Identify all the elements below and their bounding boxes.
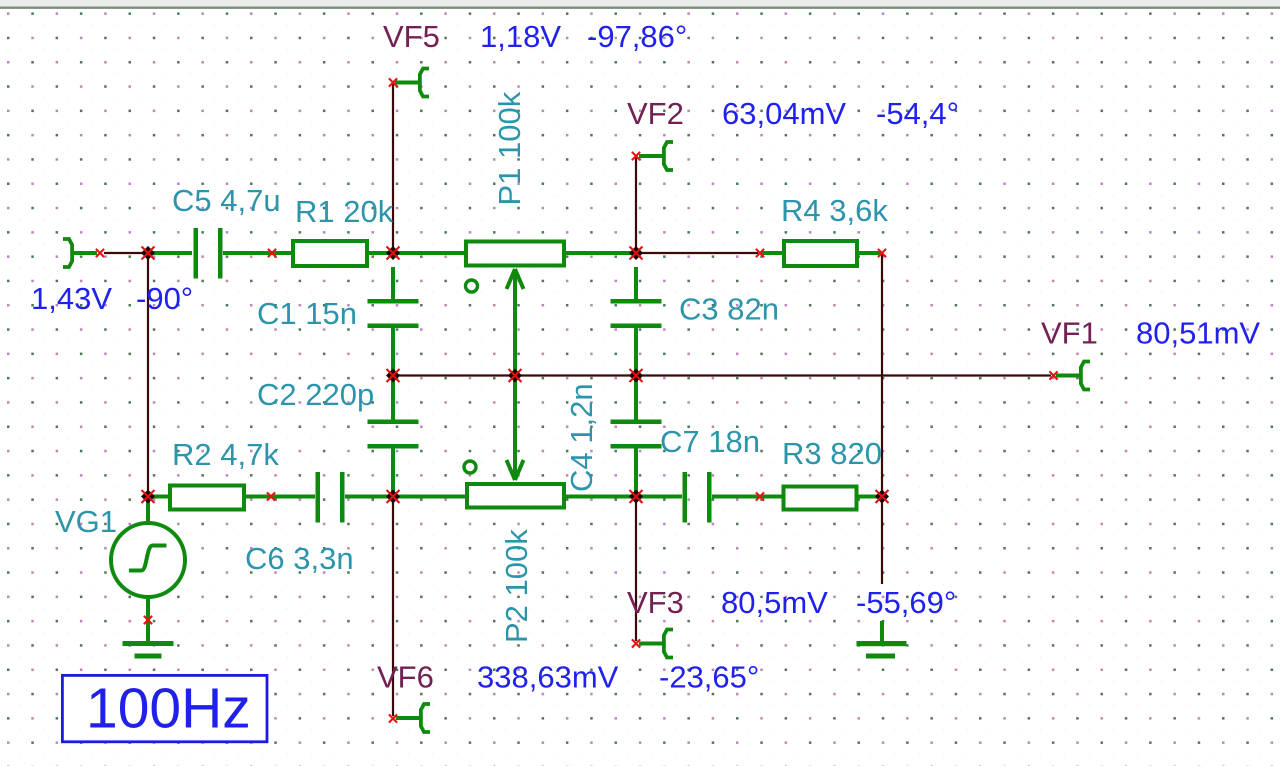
capacitor C4 [611, 420, 662, 449]
resistor R4 [784, 241, 857, 266]
pin VF6 [396, 704, 430, 732]
x R4 left [756, 249, 764, 257]
wire VG1 stubs [146, 497, 150, 641]
svg-text:-97,86°: -97,86° [587, 19, 687, 54]
svg-text:VF5: VF5 [383, 19, 440, 54]
pin VF1 [1056, 362, 1090, 390]
junction node A [141, 246, 155, 260]
capacitor C7 [683, 472, 712, 523]
wire VF5 down to node B [392, 84, 394, 252]
label VF6 row [377, 660, 434, 695]
svg-text:C4 1,2n: C4 1,2n [564, 383, 599, 492]
ground right [857, 641, 907, 659]
label VF2 row [627, 96, 684, 131]
label input value [31, 281, 193, 316]
wire R1 to P1 [369, 251, 465, 255]
potentiometer P2 circle [464, 461, 476, 473]
wire R4 right to corner [859, 251, 881, 255]
x VF3 [632, 639, 640, 647]
svg-text:C1 15n: C1 15n [257, 296, 357, 331]
potentiometer P2 [467, 484, 564, 508]
svg-text:1,18V: 1,18V [480, 19, 561, 54]
wire to R4 left [761, 251, 782, 255]
wire node C to R4 [638, 252, 758, 254]
x VG ground [144, 616, 152, 624]
svg-text:R2 4,7k: R2 4,7k [172, 437, 279, 472]
junction node F [875, 490, 889, 504]
svg-text:C5 4,7u: C5 4,7u [172, 183, 281, 218]
svg-text:VG1: VG1 [55, 504, 117, 539]
wire C2 leads [391, 377, 395, 495]
wire node E down to VF3 [635, 498, 637, 641]
resistor R1 [293, 241, 367, 266]
svg-text:63,04mV: 63,04mV [722, 96, 846, 131]
wire C6 to P2 [345, 495, 466, 499]
junction node B [386, 246, 400, 260]
svg-text:80,5mV: 80,5mV [721, 585, 828, 620]
frequency box [62, 675, 267, 741]
wire VG1 to R2 [150, 495, 169, 499]
capacitor C5 [194, 228, 223, 279]
wire C3 leads [634, 267, 638, 374]
svg-text:80,51mV: 80,51mV [1136, 316, 1260, 351]
resistor R2 [170, 486, 244, 510]
wiper arrow up into P1 [507, 269, 524, 289]
svg-text:-55,69°: -55,69° [856, 585, 956, 620]
wiper wire P1-P2 [513, 269, 517, 480]
wire P1 to node C [565, 251, 636, 255]
potentiometer P1 circle [466, 280, 478, 292]
wire VF2 down to node C [635, 157, 637, 252]
svg-text:C7 18n: C7 18n [660, 424, 760, 459]
svg-text:-23,65°: -23,65° [659, 660, 759, 695]
x VF6 [389, 714, 397, 722]
wire middle rail to VF1 [394, 374, 1051, 376]
svg-text:C6 3,3n: C6 3,3n [245, 541, 354, 576]
wire R3 to node F [857, 495, 881, 499]
wire C1 leads [391, 267, 395, 374]
svg-text:R3 820: R3 820 [782, 436, 882, 471]
pin VF3 [639, 630, 673, 658]
junction mid right [629, 369, 643, 383]
generator VG1 [111, 523, 185, 597]
svg-text:338,63mV: 338,63mV [477, 660, 619, 695]
svg-text:-54,4°: -54,4° [876, 96, 959, 131]
pin VF2 [639, 142, 673, 170]
x R4 corner [878, 249, 886, 257]
wire ground right stub [880, 621, 884, 641]
svg-text:C3 82n: C3 82n [679, 292, 779, 327]
wire input stub [150, 251, 192, 255]
wire input to node A [104, 252, 147, 254]
label VF3 row [627, 585, 684, 620]
svg-text:1,43V: 1,43V [31, 281, 112, 316]
svg-text:VF3: VF3 [627, 585, 684, 620]
label VF1 row [1041, 316, 1098, 351]
x VF2 [632, 152, 640, 160]
x C7 right [756, 492, 764, 500]
svg-text:VF1: VF1 [1041, 316, 1098, 351]
x VF5 [389, 78, 397, 86]
junction node C [629, 246, 643, 260]
junction node VG [141, 490, 155, 504]
svg-text:P1 100k: P1 100k [492, 91, 527, 205]
wire C5 to R1 [223, 251, 291, 255]
svg-text:VF2: VF2 [627, 96, 684, 131]
input terminal [63, 239, 97, 267]
wire C4 leads [634, 377, 638, 495]
svg-text:P2 100k: P2 100k [499, 529, 534, 643]
x input [96, 249, 104, 257]
svg-text:VF6: VF6 [377, 660, 434, 695]
junction mid center [508, 369, 522, 383]
svg-text:C2 220p: C2 220p [257, 377, 374, 412]
potentiometer P1 [466, 242, 564, 266]
wire node A down to VG1 [147, 254, 149, 495]
capacitor C3 [611, 299, 662, 328]
svg-text:100Hz: 100Hz [86, 677, 251, 741]
wire R2 to C6 [245, 495, 315, 499]
x C5 right [268, 249, 276, 257]
label VF5 row [383, 19, 440, 54]
wire C7 to R3 [712, 495, 783, 499]
wire P2 to C7 [565, 495, 682, 499]
wire R4 corner down to ground [881, 254, 883, 584]
x R2 right [267, 492, 275, 500]
junction node E [629, 490, 643, 504]
svg-text:R4 3,6k: R4 3,6k [781, 193, 888, 228]
wiper arrow down into P2 [507, 460, 524, 480]
x VF1 [1049, 371, 1057, 379]
svg-text:-90°: -90° [136, 281, 193, 316]
capacitor C6 [316, 472, 345, 523]
ground VG1 [123, 641, 174, 659]
junction mid left [386, 369, 400, 383]
pin VF5 [395, 69, 429, 97]
wire node D down to VF6 [392, 498, 394, 716]
svg-text:R1 20k: R1 20k [295, 194, 394, 229]
resistor R3 [784, 487, 857, 510]
junction node D [386, 490, 400, 504]
capacitor C2 [368, 420, 419, 449]
capacitor C1 [368, 299, 419, 328]
